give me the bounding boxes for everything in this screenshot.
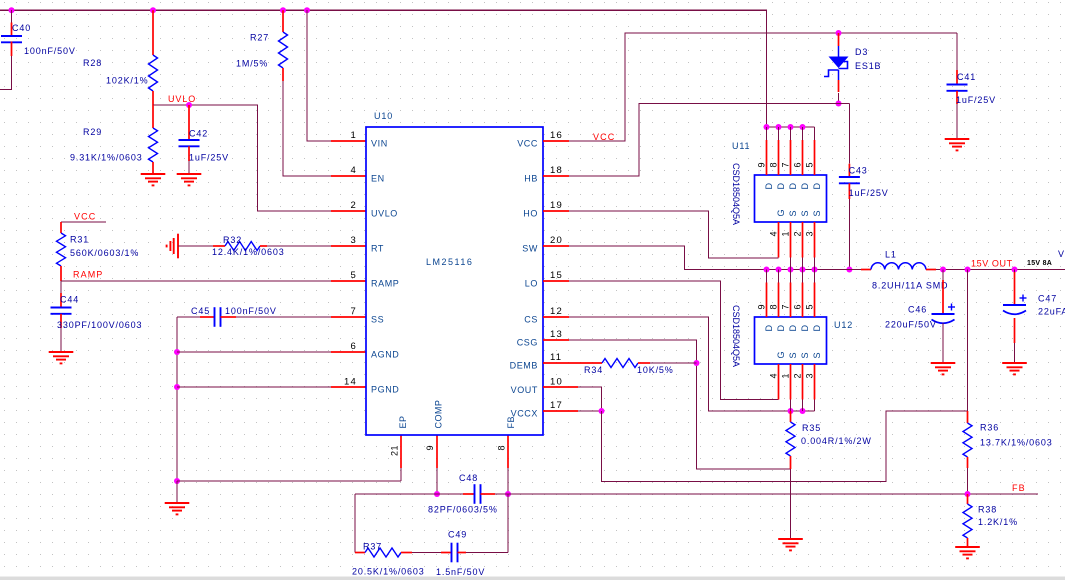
- node UVLO junction: [186, 102, 192, 108]
- resistor R31: [60, 222, 62, 233]
- svg-text:1: 1: [351, 130, 357, 141]
- svg-text:16: 16: [550, 130, 563, 141]
- svg-text:C46: C46: [908, 305, 927, 315]
- svg-text:5: 5: [351, 270, 357, 281]
- svg-text:102K/1%: 102K/1%: [106, 76, 148, 86]
- wire PGND row: [177, 386, 331, 388]
- svg-text:R27: R27: [250, 33, 269, 43]
- U11 gate pin stub: [778, 222, 780, 258]
- svg-text:1uF/25V: 1uF/25V: [956, 95, 996, 105]
- svg-text:D: D: [776, 183, 786, 190]
- node C46 junction: [940, 267, 946, 273]
- inductor L1: [849, 269, 861, 271]
- svg-text:9: 9: [425, 445, 435, 450]
- svg-text:D: D: [812, 183, 822, 190]
- U12 gate pin stub: [778, 364, 780, 400]
- ground under C47: [1002, 362, 1027, 364]
- ground under R35: [778, 538, 803, 540]
- svg-text:U12: U12: [834, 320, 853, 330]
- resistor R37: [355, 552, 365, 554]
- wire left ground bus: [176, 317, 178, 481]
- svg-text:10K/5%: 10K/5%: [637, 365, 674, 375]
- svg-text:S: S: [812, 210, 822, 216]
- svg-text:S: S: [812, 352, 822, 358]
- svg-text:5: 5: [804, 304, 814, 309]
- svg-text:S: S: [788, 210, 798, 216]
- wire VIN top bus: [0, 10, 767, 127]
- svg-text:R38: R38: [978, 505, 997, 515]
- capacitor C47: [1014, 270, 1016, 273]
- wire compensation left leg: [354, 494, 356, 553]
- svg-text:CSD18504Q5A: CSD18504Q5A: [731, 305, 741, 367]
- svg-text:R31: R31: [70, 235, 89, 245]
- wire RAMP to pin5: [61, 280, 331, 282]
- svg-text:U11: U11: [732, 141, 750, 151]
- svg-text:FB: FB: [506, 416, 516, 428]
- svg-text:C47: C47: [1038, 294, 1057, 304]
- svg-text:2: 2: [792, 373, 802, 378]
- svg-text:1: 1: [780, 373, 790, 378]
- capacitor C45: [177, 316, 200, 318]
- pin CSG wire: [543, 339, 569, 341]
- wire bottom row to EP: [177, 480, 401, 482]
- node R34-CSG junction: [694, 360, 700, 366]
- ground left of R32: [177, 234, 179, 259]
- svg-text:8.2UH/11A SMD: 8.2UH/11A SMD: [872, 281, 948, 291]
- svg-text:10: 10: [550, 377, 563, 388]
- svg-text:19: 19: [550, 200, 563, 211]
- U11 source pin stubs: [790, 222, 792, 258]
- svg-text:G: G: [776, 351, 786, 358]
- svg-text:7: 7: [780, 304, 790, 309]
- node PGND junction: [174, 384, 180, 390]
- node D3 anode junction: [836, 30, 842, 36]
- pin VOUT wire: [543, 386, 578, 388]
- pin SW wire: [543, 245, 569, 247]
- svg-text:RT: RT: [371, 243, 384, 253]
- node AGND junction: [174, 349, 180, 355]
- svg-text:COMP: COMP: [434, 400, 444, 429]
- node C43-SW junction: [846, 267, 852, 273]
- svg-text:6: 6: [792, 162, 802, 167]
- resistor R35: [790, 411, 792, 422]
- svg-text:14: 14: [344, 377, 357, 388]
- wire FB pin leg down: [507, 494, 509, 553]
- pin HO wire to U11 gate: [543, 210, 569, 212]
- wire VIN to pin1: [307, 10, 331, 141]
- svg-text:C45: C45: [191, 306, 210, 316]
- capacitor C49: [441, 552, 452, 554]
- svg-text:PGND: PGND: [371, 384, 399, 394]
- resistor R27: [282, 10, 284, 32]
- svg-text:4: 4: [768, 231, 778, 236]
- svg-text:4: 4: [768, 373, 778, 378]
- wire 15V output rail: [936, 269, 1065, 271]
- capacitor C41: [956, 33, 958, 70]
- svg-text:C42: C42: [189, 129, 208, 139]
- svg-text:R37: R37: [363, 542, 382, 552]
- svg-text:EN: EN: [371, 173, 385, 183]
- svg-text:560K/0603/1%: 560K/0603/1%: [70, 248, 139, 258]
- svg-text:R36: R36: [980, 423, 999, 433]
- diode D3 ES1B: [838, 33, 840, 46]
- resistor R36: [967, 411, 969, 423]
- pin COMP wire: [436, 435, 438, 468]
- svg-text:0.004R/1%/2W: 0.004R/1%/2W: [801, 436, 872, 446]
- svg-text:D: D: [788, 183, 798, 190]
- svg-text:22uFA: 22uFA: [1038, 307, 1065, 317]
- svg-text:R28: R28: [83, 58, 102, 68]
- svg-text:100nF/50V: 100nF/50V: [225, 306, 277, 316]
- ground under C42: [177, 173, 202, 175]
- svg-text:CSG: CSG: [517, 337, 538, 347]
- wire C45 to SS pin: [236, 316, 331, 318]
- U12 drain pin stubs: [766, 270, 768, 283]
- svg-text:330PF/100V/0603: 330PF/100V/0603: [57, 320, 142, 330]
- svg-text:C49: C49: [448, 530, 467, 540]
- svg-text:20.5K/1%/0603: 20.5K/1%/0603: [352, 567, 425, 577]
- svg-text:2: 2: [351, 200, 357, 211]
- ground under C44: [49, 351, 74, 353]
- resistor R32: [178, 245, 213, 247]
- wire FB net row: [495, 493, 1038, 495]
- transistor U12 body CSD18504Q5A: [755, 317, 827, 364]
- svg-text:15: 15: [550, 270, 563, 281]
- svg-text:HB: HB: [524, 173, 538, 183]
- node VOUT-CCX junction: [599, 408, 605, 414]
- svg-text:FB: FB: [1012, 483, 1026, 493]
- op-amp U10 LM25116 body: [366, 127, 543, 435]
- svg-text:S: S: [800, 210, 810, 216]
- svg-text:LO: LO: [525, 278, 538, 288]
- svg-text:CSD18504Q5A: CSD18504Q5A: [731, 163, 741, 225]
- U11 drain pin stubs: [766, 127, 768, 140]
- svg-text:11: 11: [550, 352, 562, 363]
- svg-text:3: 3: [804, 231, 814, 236]
- svg-text:DEMB: DEMB: [510, 360, 538, 370]
- svg-text:D3: D3: [855, 47, 868, 57]
- resistor R29: [152, 105, 154, 128]
- node C47 junction: [1012, 267, 1018, 273]
- svg-text:C48: C48: [459, 473, 478, 483]
- svg-text:1M/5%: 1M/5%: [236, 59, 268, 69]
- svg-text:RAMP: RAMP: [73, 270, 103, 280]
- svg-text:D: D: [788, 325, 798, 332]
- node VIN-pin1 junction: [304, 7, 310, 13]
- svg-text:R35: R35: [802, 423, 821, 433]
- resistor R34: [543, 362, 602, 364]
- svg-text:9: 9: [756, 162, 766, 167]
- U12 source pin stubs: [790, 364, 792, 400]
- svg-text:VOUT: VOUT: [511, 385, 538, 395]
- pin CCX wire: [543, 410, 578, 412]
- svg-text:HO: HO: [523, 208, 538, 218]
- pin VCC wire and label: [543, 140, 569, 142]
- node U11 drain junctions: [764, 124, 770, 130]
- pin HB wire: [543, 175, 569, 177]
- svg-text:D: D: [812, 325, 822, 332]
- wire U11 drain row: [767, 126, 815, 128]
- svg-text:1: 1: [780, 231, 790, 236]
- svg-text:17: 17: [550, 400, 563, 411]
- svg-text:C43: C43: [849, 166, 868, 176]
- svg-text:3: 3: [351, 235, 357, 246]
- svg-text:220uF/50V: 220uF/50V: [885, 320, 937, 330]
- svg-text:15V 8A: 15V 8A: [1027, 260, 1052, 267]
- svg-text:SW: SW: [522, 243, 538, 253]
- svg-text:1uF/25V: 1uF/25V: [189, 153, 229, 163]
- capacitor C42: [188, 105, 190, 140]
- ground under left bus: [176, 481, 178, 503]
- svg-text:2: 2: [792, 231, 802, 236]
- resistor R28: [152, 10, 154, 55]
- node VIN-R28 junction: [150, 7, 156, 13]
- svg-text:C40: C40: [12, 23, 31, 33]
- svg-text:C41: C41: [957, 72, 976, 82]
- svg-text:G: G: [776, 209, 786, 216]
- wire VCC stub: [61, 221, 106, 223]
- svg-text:8: 8: [768, 304, 778, 309]
- pin EP wire: [400, 435, 402, 468]
- svg-text:C44: C44: [60, 295, 79, 305]
- svg-text:R29: R29: [83, 127, 102, 137]
- capacitor C43: [848, 104, 850, 164]
- svg-text:1.5nF/50V: 1.5nF/50V: [436, 567, 485, 577]
- svg-text:RAMP: RAMP: [371, 278, 399, 288]
- node VIN-R27 junction: [280, 7, 286, 13]
- svg-text:7: 7: [351, 306, 357, 317]
- wire UVLO net: [153, 105, 337, 211]
- svg-text:13.7K/1%/0603: 13.7K/1%/0603: [980, 438, 1053, 448]
- svg-text:D: D: [800, 325, 810, 332]
- node FB divider junction: [965, 491, 971, 497]
- svg-text:S: S: [788, 352, 798, 358]
- svg-text:D: D: [764, 325, 774, 332]
- svg-text:1.2K/1%: 1.2K/1%: [978, 517, 1018, 527]
- capacitor C44: [60, 281, 62, 293]
- svg-text:82PF/0603/5%: 82PF/0603/5%: [428, 505, 498, 515]
- svg-text:8: 8: [497, 445, 507, 450]
- svg-text:R34: R34: [584, 365, 603, 375]
- svg-text:8: 8: [768, 162, 778, 167]
- node R35 top junctions: [788, 408, 794, 414]
- svg-text:UVLO: UVLO: [371, 208, 398, 218]
- svg-text:R32: R32: [223, 235, 242, 245]
- svg-text:5: 5: [804, 162, 814, 167]
- svg-text:15V OUT: 15V OUT: [971, 259, 1013, 269]
- svg-text:EP: EP: [398, 416, 408, 429]
- svg-text:13: 13: [550, 329, 563, 340]
- svg-text:U10: U10: [374, 111, 393, 121]
- pin LO wire to U12 gate: [543, 280, 569, 282]
- svg-text:VCC: VCC: [74, 212, 96, 222]
- svg-text:21: 21: [390, 445, 400, 456]
- svg-text:4: 4: [351, 165, 357, 176]
- ground under C41: [945, 138, 970, 140]
- wire R32 to RT pin: [267, 245, 331, 247]
- svg-text:VIN: VIN: [371, 138, 388, 148]
- node FB-pin junction: [505, 491, 511, 497]
- wire AGND row: [177, 351, 331, 353]
- svg-text:LM25116: LM25116: [426, 257, 473, 267]
- wire output to R36: [967, 270, 969, 412]
- svg-text:9: 9: [756, 304, 766, 309]
- svg-text:3: 3: [804, 373, 814, 378]
- wire R37 to C49: [412, 552, 441, 554]
- svg-text:ES1B: ES1B: [855, 61, 881, 71]
- wire R27 to EN pin: [283, 81, 331, 176]
- capacitor C46: [942, 270, 944, 281]
- node SW row junctions: [764, 267, 770, 273]
- svg-text:7: 7: [780, 162, 790, 167]
- svg-text:6: 6: [351, 341, 357, 352]
- wire CCX to output sense: [602, 411, 968, 482]
- svg-text:UVLO: UVLO: [168, 94, 196, 104]
- node ground-bus bottom junction: [174, 478, 180, 484]
- capacitor C48: [355, 493, 463, 495]
- svg-text:VCC: VCC: [517, 138, 538, 148]
- svg-text:D: D: [776, 325, 786, 332]
- svg-text:AGND: AGND: [371, 349, 399, 359]
- svg-text:CS: CS: [524, 314, 538, 324]
- wire C40 to left edge: [11, 42, 13, 57]
- svg-text:9.31K/1%/0603: 9.31K/1%/0603: [70, 153, 143, 163]
- svg-text:SS: SS: [371, 314, 384, 324]
- svg-text:V: V: [1058, 249, 1065, 259]
- svg-text:S: S: [800, 352, 810, 358]
- svg-text:12.4K/1%/0603: 12.4K/1%/0603: [212, 247, 285, 257]
- capacitor C40: [11, 10, 13, 22]
- svg-text:1uF/25V: 1uF/25V: [849, 188, 889, 198]
- svg-text:D: D: [800, 183, 810, 190]
- svg-text:D: D: [764, 183, 774, 190]
- wire C49 to FB leg: [466, 552, 508, 554]
- svg-text:L1: L1: [885, 250, 897, 260]
- transistor U11 body CSD18504Q5A: [755, 175, 827, 222]
- svg-text:12: 12: [550, 306, 563, 317]
- svg-text:20: 20: [550, 235, 563, 246]
- pin FB wire: [507, 435, 509, 468]
- ground under R38: [955, 546, 980, 548]
- node COMP junction: [434, 491, 440, 497]
- resistor R38: [967, 494, 969, 504]
- node output sense junction: [965, 267, 971, 273]
- node VIN-C40 junction: [9, 7, 15, 13]
- ground under R29: [141, 173, 166, 175]
- svg-text:6: 6: [792, 304, 802, 309]
- svg-text:18: 18: [550, 165, 563, 176]
- wire VCC to D3 anode and C41: [569, 33, 957, 141]
- ground under C46: [931, 362, 956, 364]
- node D3 cathode junction: [836, 101, 842, 107]
- pin CS wire: [543, 316, 569, 318]
- svg-text:100nF/50V: 100nF/50V: [24, 46, 76, 56]
